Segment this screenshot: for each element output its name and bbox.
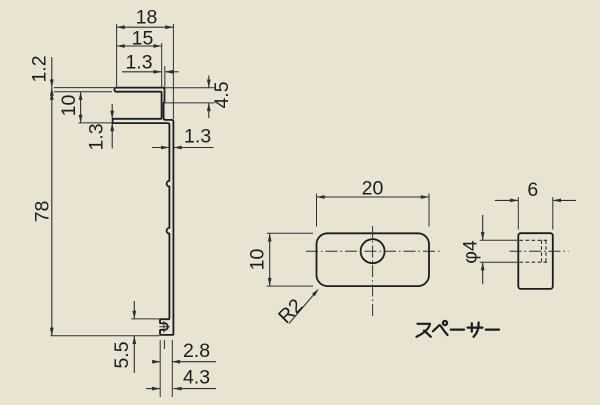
vertical centerline front view (372, 226, 374, 316)
extrusion profile outline (113, 88, 174, 335)
extension lines for 4.5 (164, 88, 214, 103)
dimension 4.5 (top step height) (207, 76, 233, 119)
screw-port centerline cross (159, 321, 170, 332)
svg-text:2.8: 2.8 (183, 340, 210, 362)
extension line hook top (for 5.5) (131, 318, 159, 320)
svg-text:15: 15 (132, 27, 154, 49)
extension lines for 10 (spacer) (267, 233, 313, 286)
svg-text:4.5: 4.5 (211, 81, 233, 108)
extension line plate left edge (top) (116, 24, 118, 87)
extension lines plate top/bottom (left) (54, 88, 116, 92)
dimension 2.8 (screw port width) (152, 340, 216, 364)
dimension 10 (channel depth) (58, 92, 82, 123)
dimension 6 (spacer thickness) (495, 179, 576, 202)
extension lines for phi4 (480, 240, 517, 262)
svg-text:10: 10 (246, 249, 268, 271)
svg-text:18: 18 (136, 6, 158, 28)
dimension 1.3 (lower wall thickness) (152, 125, 214, 149)
dimension phi4 (hole diameter) (460, 215, 485, 284)
svg-text:φ4: φ4 (460, 240, 482, 264)
label spacer (katakana) (417, 321, 500, 337)
dimension 1.2 (plate thickness) (29, 55, 54, 99)
horizontal centerline front view (306, 250, 440, 252)
svg-text:4.3: 4.3 (183, 367, 210, 389)
dimension 1.3 (flange thickness) (86, 104, 115, 151)
dimension 15 (plate width) (117, 27, 162, 49)
extension lines for 20 (317, 194, 430, 227)
svg-text:10: 10 (58, 95, 80, 117)
dimension 5.5 (hook height) (111, 301, 136, 373)
extension line upper wall left face (161, 43, 163, 87)
dimension 18 (overall width) (117, 6, 174, 29)
dimension 78 (overall height) (32, 88, 54, 336)
svg-text:1.3: 1.3 (184, 125, 211, 147)
svg-text:1.3: 1.3 (125, 52, 152, 74)
extension line flange bottom (for 10) (79, 122, 112, 124)
spacer hole (361, 239, 385, 263)
radius callout R2 (274, 289, 319, 328)
svg-text:5.5: 5.5 (111, 341, 133, 368)
dimension 20 (spacer length) (317, 178, 430, 200)
extension lines below profile (160, 340, 172, 397)
svg-text:78: 78 (32, 201, 54, 223)
dimension 1.3 (upper wall thickness) (122, 52, 179, 74)
svg-text:20: 20 (362, 178, 384, 200)
dimension 4.3 (bottom width) (146, 367, 216, 391)
svg-text:1.2: 1.2 (29, 55, 51, 82)
extension line upper wall right face (164, 66, 166, 103)
horizontal centerline side view (510, 250, 569, 252)
extension lines for 6 (518, 197, 553, 230)
hidden hole lines side view (520, 240, 550, 262)
spacer side view body (518, 233, 553, 289)
svg-text:6: 6 (527, 179, 538, 201)
extension line wall outer right (top) (172, 24, 174, 119)
dimension 10 (spacer height) (246, 233, 271, 286)
spacer front view body (317, 233, 430, 286)
extension line profile bottom (left) (51, 335, 160, 337)
svg-text:1.3: 1.3 (86, 123, 108, 150)
